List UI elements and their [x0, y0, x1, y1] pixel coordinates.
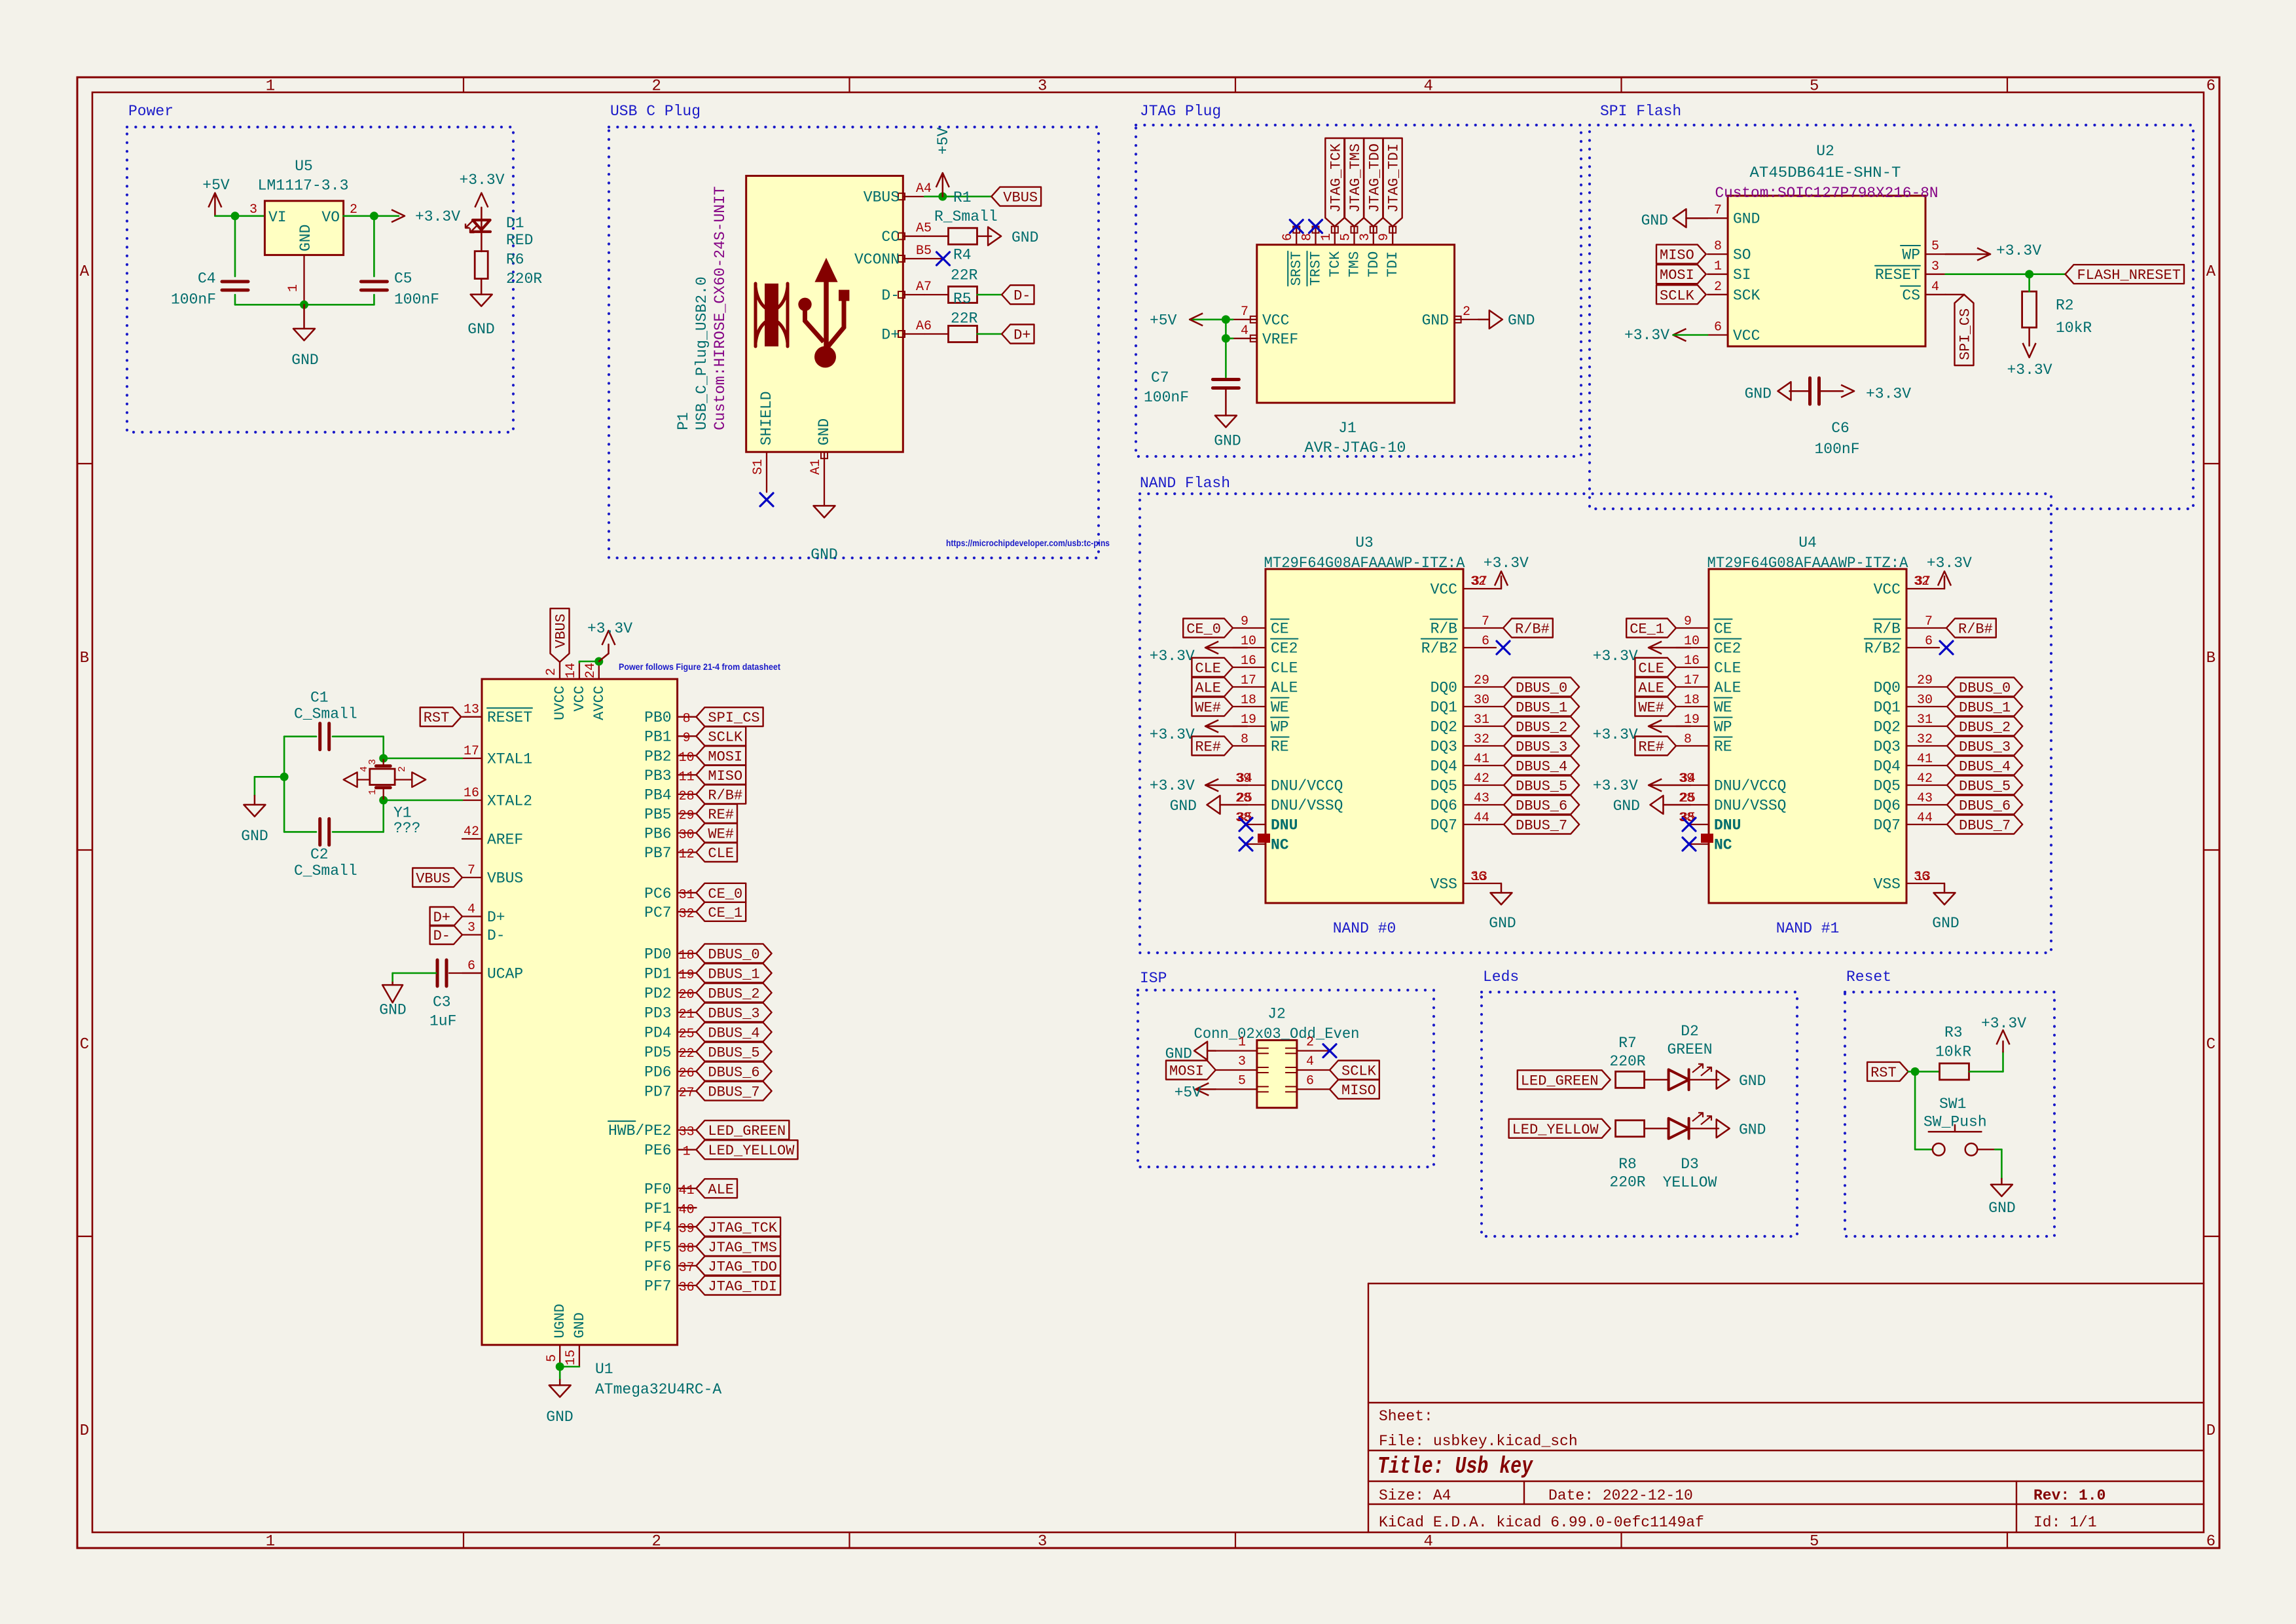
svg-text:42: 42 — [1474, 771, 1489, 786]
J2 pin 6 — [1286, 1073, 1330, 1092]
svg-text:SCLK: SCLK — [1341, 1063, 1377, 1080]
svg-text:3: 3 — [467, 921, 475, 936]
R7 reference — [1618, 1035, 1637, 1052]
svg-text:DBUS_3: DBUS_3 — [1516, 739, 1567, 756]
svg-text:A: A — [80, 263, 90, 281]
svg-text:D1: D1 — [506, 215, 524, 232]
svg-text:2: 2 — [651, 78, 661, 96]
U4 value MT29F64G08AFAAAWP-ITZ:A — [1707, 555, 1908, 572]
svg-text:25: 25 — [1237, 791, 1252, 806]
capacitor C4 — [222, 216, 248, 305]
svg-text:PD2: PD2 — [644, 986, 671, 1003]
U4 pin 17 ALE — [1676, 673, 1741, 697]
global label RE# mcu — [696, 804, 737, 823]
svg-text:DQ3: DQ3 — [1874, 739, 1901, 756]
svg-text:MISO: MISO — [708, 768, 742, 784]
svg-text:R2: R2 — [2056, 297, 2074, 314]
U3 pin DNU — [1235, 811, 1298, 834]
svg-text:GND: GND — [467, 321, 494, 338]
P1 pin B5 VCONN — [854, 244, 932, 268]
svg-text:10: 10 — [1684, 634, 1700, 649]
svg-text:GND: GND — [241, 828, 268, 845]
svg-text:ALE: ALE — [708, 1181, 734, 1198]
J1 pin 4 VREF — [1233, 323, 1298, 348]
global label DBUS U4 DQ7 — [1947, 815, 2022, 834]
power symbol +3.3V U4 — [1938, 571, 1951, 585]
frame column tick — [1620, 77, 1622, 1548]
svg-text:Leds: Leds — [1483, 969, 1519, 986]
svg-text:VCONN: VCONN — [854, 251, 900, 268]
svg-text:42: 42 — [464, 824, 479, 840]
svg-text:DBUS_0: DBUS_0 — [1959, 680, 2011, 697]
P1 pin S1 SHIELD — [751, 391, 775, 492]
U2 pin 5 WP — [1901, 239, 1946, 264]
wire crystal left rail — [283, 737, 285, 832]
U3 pin 42 DQ5 — [1430, 771, 1504, 795]
C6 value 100nF — [1814, 441, 1859, 458]
global label MISO u2 — [1656, 245, 1706, 264]
J1 pin 7 VCC — [1233, 304, 1289, 329]
R6 reference — [506, 251, 524, 268]
svg-text:R5: R5 — [953, 291, 972, 308]
svg-text:DBUS_4: DBUS_4 — [1959, 759, 2011, 775]
power symbol +5V jtag — [1150, 312, 1203, 329]
global label CE_1 mcu — [696, 902, 746, 921]
svg-text:31: 31 — [679, 887, 695, 902]
svg-text:PD5: PD5 — [644, 1044, 671, 1061]
global label LED_GREEN — [1518, 1070, 1611, 1089]
U3 pin 31 DQ2 — [1430, 712, 1504, 736]
J2 pin 5 — [1216, 1073, 1268, 1092]
wire +5V to U5 VI — [215, 215, 264, 217]
note NAND #0 — [1333, 920, 1396, 937]
U3 pin NC — [1247, 837, 1289, 854]
svg-text:SO: SO — [1733, 247, 1751, 264]
frame row tick — [77, 849, 2219, 851]
svg-text:RE#: RE# — [708, 807, 734, 823]
svg-text:DBUS_1: DBUS_1 — [1516, 700, 1567, 716]
P1 pin A1 GND — [809, 418, 833, 506]
R8 value 220R — [1609, 1174, 1645, 1191]
junction VBUS — [938, 193, 947, 201]
power symbol +3.3V above D1 — [459, 172, 504, 220]
global label JTAG_TMS — [1345, 138, 1364, 227]
junction FLASH_NRESET — [2025, 270, 2033, 278]
svg-text:43: 43 — [1917, 791, 1933, 806]
svg-text:+3.3V: +3.3V — [2007, 361, 2052, 378]
U2 pin 3 RESET — [1875, 259, 1946, 284]
svg-text:DBUS_1: DBUS_1 — [708, 966, 759, 982]
resistor R5 on D+ line — [924, 326, 977, 342]
svg-text:6: 6 — [2206, 1533, 2215, 1551]
svg-text:R3: R3 — [1944, 1024, 1963, 1041]
svg-text:P1: P1 — [675, 412, 692, 430]
C4 reference — [198, 270, 216, 287]
svg-text:4: 4 — [467, 902, 475, 917]
global label DBUS U4 DQ5 — [1947, 776, 2022, 795]
global label DBUS U3 DQ6 — [1504, 796, 1579, 815]
svg-text:DBUS_4: DBUS_4 — [1516, 759, 1567, 775]
U1 pin 38 PF5 — [644, 1239, 696, 1257]
U3 pin 18 WE — [1233, 693, 1289, 716]
global label DBUS U4 DQ0 — [1947, 678, 2022, 697]
svg-text:4: 4 — [1423, 1533, 1432, 1551]
global label LED_GREEN mcu — [696, 1120, 789, 1139]
svg-text:J2: J2 — [1267, 1006, 1286, 1023]
svg-text:30: 30 — [1474, 693, 1489, 708]
svg-text:5: 5 — [1810, 1533, 1819, 1551]
svg-text:17: 17 — [1684, 673, 1700, 688]
global label RE# U4 — [1635, 737, 1676, 756]
label +3.3V U3 vcc — [1484, 555, 1529, 572]
svg-text:+3.3V: +3.3V — [1996, 242, 2041, 259]
svg-text:PB7: PB7 — [644, 845, 671, 862]
title block date field — [1548, 1487, 1693, 1504]
svg-text:9: 9 — [1377, 233, 1392, 241]
svg-text:UVCC: UVCC — [552, 686, 568, 720]
svg-text:PB2: PB2 — [644, 748, 671, 765]
U1 pin 18 PD0 — [644, 946, 696, 963]
ground arrow U3 vssq — [1170, 796, 1247, 815]
ground symbol below R6 — [467, 279, 494, 338]
svg-text:CLE: CLE — [708, 845, 734, 862]
wire XTAL1 — [384, 758, 462, 760]
svg-text:100nF: 100nF — [1814, 441, 1859, 458]
svg-text:DBUS_6: DBUS_6 — [1959, 798, 2011, 815]
resistor R8 — [1616, 1120, 1645, 1137]
U5 reference — [295, 158, 313, 175]
svg-text:DBUS_2: DBUS_2 — [1959, 720, 2011, 736]
U3 pin 6 R/B2 — [1421, 634, 1489, 657]
svg-text:TRST: TRST — [1307, 251, 1324, 286]
USB icon — [756, 259, 849, 368]
U3 pin 8 RE — [1233, 732, 1289, 756]
svg-text:D3: D3 — [1681, 1156, 1699, 1173]
svg-text:D+: D+ — [881, 327, 900, 344]
svg-text:C6: C6 — [1831, 420, 1850, 437]
capacitor C2 — [284, 800, 384, 845]
J2 pin 2 — [1286, 1035, 1330, 1054]
svg-text:PD3: PD3 — [644, 1005, 671, 1022]
global label CLE U4 — [1635, 658, 1676, 677]
svg-text:12: 12 — [679, 847, 695, 862]
svg-text:WP: WP — [1902, 247, 1920, 264]
svg-text:+3.3V: +3.3V — [1981, 1015, 2026, 1032]
global label DBUS U4 DQ4 — [1947, 756, 2022, 775]
global label R/B# U3 — [1482, 619, 1553, 638]
U2 pin 7 GND — [1707, 203, 1760, 228]
svg-text:6: 6 — [1714, 320, 1722, 335]
svg-text:RE: RE — [1271, 739, 1289, 756]
C5 value 100nF — [394, 291, 439, 308]
U1 pin 27 PD7 — [644, 1084, 696, 1101]
svg-text:U2: U2 — [1816, 143, 1834, 160]
svg-text:3: 3 — [1931, 259, 1939, 274]
svg-text:JTAG_TDI: JTAG_TDI — [1386, 143, 1402, 213]
U4 pin 43 DQ6 — [1874, 791, 1947, 815]
C5 reference — [394, 270, 412, 287]
svg-text:CLE: CLE — [1195, 661, 1221, 677]
svg-text:PF6: PF6 — [644, 1258, 671, 1275]
J1 pin 3 TDO — [1358, 227, 1382, 278]
svg-text:39: 39 — [679, 1221, 695, 1236]
svg-text:https://microchipdeveloper.com: https://microchipdeveloper.com/usb:tc-pi… — [946, 538, 1110, 548]
svg-text:+3.3V: +3.3V — [587, 620, 632, 637]
U1 pin 36 PF7 — [644, 1278, 696, 1296]
svg-text:DBUS_3: DBUS_3 — [1959, 739, 2011, 756]
U5 pin 3 VI — [249, 202, 287, 226]
svg-text:NC: NC — [1714, 837, 1732, 854]
title block tool field — [1379, 1514, 1704, 1531]
svg-text:20: 20 — [679, 987, 695, 1003]
U3 pin DNU/VSSQ — [1235, 791, 1343, 815]
svg-text:SPI_CS: SPI_CS — [1957, 308, 1973, 360]
svg-text:Date: 2022-12-10: Date: 2022-12-10 — [1548, 1487, 1693, 1504]
section label Leds — [1483, 969, 1519, 986]
svg-text:6: 6 — [1925, 634, 1933, 649]
svg-text:2: 2 — [651, 1533, 661, 1551]
ground symbol below C7 — [1214, 416, 1241, 450]
svg-text:1: 1 — [266, 1533, 275, 1551]
svg-text:6: 6 — [467, 959, 475, 974]
svg-text:+3.3V: +3.3V — [1484, 555, 1529, 572]
svg-text:220R: 220R — [1609, 1174, 1645, 1191]
ground symbol U4 vss — [1932, 893, 1959, 932]
svg-text:Reset: Reset — [1846, 969, 1891, 986]
frame column tick — [1235, 77, 1236, 1548]
svg-text:WE: WE — [1714, 699, 1732, 716]
U1 pin 30 PB6 — [644, 825, 696, 843]
svg-text:R7: R7 — [1618, 1035, 1637, 1052]
svg-text:R/B2: R/B2 — [1421, 640, 1457, 657]
svg-text:KiCad E.D.A. kicad 6.99.0-0ef: KiCad E.D.A. kicad 6.99.0-0efc1149af — [1379, 1514, 1704, 1531]
svg-text:DNU/VCCQ: DNU/VCCQ — [1271, 778, 1343, 795]
svg-text:TCK: TCK — [1327, 251, 1343, 277]
ground arrow D2 — [1717, 1071, 1766, 1090]
svg-text:LED_YELLOW: LED_YELLOW — [1512, 1122, 1599, 1138]
resistor R6 — [475, 251, 488, 279]
U4 pin VCC — [1874, 574, 1944, 599]
svg-text:CLE: CLE — [1638, 661, 1664, 677]
ground arrow U4 vssq — [1613, 796, 1690, 815]
svg-text:GND: GND — [1422, 312, 1449, 329]
svg-text:JTAG_TCK: JTAG_TCK — [708, 1220, 777, 1236]
J1 pin 9 TDI — [1377, 227, 1401, 278]
svg-text:DNU: DNU — [1271, 817, 1298, 834]
svg-text:C4: C4 — [198, 270, 216, 287]
global label DBUS U4 DQ2 — [1947, 717, 2022, 736]
U4 pin 7 R/B — [1874, 614, 1933, 638]
C6 reference — [1831, 420, 1850, 437]
svg-text:CLE: CLE — [1271, 660, 1298, 677]
svg-text:GND: GND — [546, 1409, 573, 1426]
wire D2 to gnd — [1689, 1079, 1719, 1080]
U4 pin DNU/VCCQ — [1679, 771, 1786, 795]
svg-text:1: 1 — [1714, 259, 1722, 274]
svg-text:C: C — [80, 1036, 89, 1054]
svg-text:VBUS: VBUS — [416, 871, 450, 887]
svg-text:43: 43 — [1474, 791, 1489, 806]
title block frame — [1368, 1283, 2204, 1532]
global label DBUS U3 DQ7 — [1504, 815, 1579, 834]
U1 pin 2 UVCC — [544, 662, 568, 720]
U1 pin 31 PC6 — [644, 885, 696, 903]
svg-text:MISO: MISO — [1660, 248, 1694, 264]
svg-text:22R: 22R — [951, 267, 978, 284]
wire to crystal gnd — [255, 777, 284, 796]
svg-text:32: 32 — [1474, 732, 1489, 747]
svg-text:SW_Push: SW_Push — [1923, 1114, 1987, 1131]
svg-text:36: 36 — [679, 1280, 695, 1295]
svg-text:LED_GREEN: LED_GREEN — [708, 1123, 786, 1139]
SW1 value SW_Push — [1923, 1114, 1987, 1131]
section label JTAG Plug — [1140, 103, 1221, 120]
U3 pin VSS — [1430, 870, 1501, 893]
U1 pin 24 AVCC — [583, 662, 608, 720]
no connect U4 nc — [1683, 838, 1696, 851]
U1 pin 39 PF4 — [644, 1219, 696, 1237]
svg-text:VBUS: VBUS — [487, 870, 523, 887]
U1 value ATmega32U4RC-A — [595, 1381, 721, 1398]
svg-text:9: 9 — [1684, 614, 1692, 629]
ground arrow D3 — [1717, 1119, 1766, 1138]
global label SCLK u2 — [1656, 285, 1706, 304]
R7 value 220R — [1609, 1053, 1645, 1070]
svg-text:MISO: MISO — [1341, 1082, 1376, 1099]
svg-text:D+: D+ — [487, 909, 505, 926]
svg-text:MOSI: MOSI — [1660, 267, 1694, 284]
svg-text:220R: 220R — [1609, 1053, 1645, 1070]
svg-text:13: 13 — [464, 703, 479, 718]
global label VBUS mcu — [412, 868, 462, 887]
global label R/B# U4 — [1925, 619, 1996, 638]
power symbol +3.3V U3 ce2 — [1150, 642, 1247, 665]
svg-text:VBUS: VBUS — [864, 189, 900, 206]
svg-text:DQ4: DQ4 — [1874, 758, 1901, 775]
svg-text:+3.3V: +3.3V — [1150, 777, 1195, 794]
section label Power — [128, 103, 173, 120]
U3 pin 32 DQ3 — [1430, 732, 1504, 756]
frame row label C — [80, 1036, 2215, 1054]
U4 pin 8 RE — [1676, 732, 1732, 756]
global label RST reset — [1867, 1062, 1908, 1081]
svg-text:AT45DB641E-SHN-T: AT45DB641E-SHN-T — [1750, 164, 1901, 181]
D1 value RED — [506, 232, 533, 249]
section label SPI Flash — [1600, 103, 1681, 120]
U1 pin 25 PD4 — [644, 1025, 696, 1043]
svg-text:VBUS: VBUS — [553, 614, 570, 648]
svg-text:DBUS_3: DBUS_3 — [708, 1006, 759, 1022]
U3 pin VCC — [1430, 574, 1501, 599]
svg-text:A1: A1 — [809, 459, 824, 475]
svg-text:USB_C_Plug_USB2.0: USB_C_Plug_USB2.0 — [693, 276, 710, 430]
svg-text:5: 5 — [1339, 233, 1354, 241]
svg-text:AVR-JTAG-10: AVR-JTAG-10 — [1305, 439, 1406, 456]
svg-text:Sheet:: Sheet: — [1379, 1408, 1433, 1425]
svg-text:D2: D2 — [1681, 1023, 1699, 1040]
svg-text:+3.3V: +3.3V — [1624, 327, 1669, 344]
section label ISP — [1140, 970, 1167, 987]
note power follows — [619, 661, 780, 672]
svg-text:3: 3 — [1238, 1054, 1246, 1069]
U1 pin 5 UGND — [545, 1304, 568, 1367]
svg-text:30: 30 — [679, 828, 695, 843]
svg-text:10kR: 10kR — [1935, 1043, 1971, 1060]
svg-text:Y1: Y1 — [393, 805, 412, 822]
ground arrow U2 GND — [1641, 209, 1708, 229]
power symbol +3.3V U3 wp — [1150, 720, 1247, 744]
U1 pin 21 PD3 — [644, 1005, 696, 1023]
global label JTAG_TCK — [1325, 138, 1344, 227]
svg-text:33: 33 — [679, 1125, 695, 1140]
svg-text:18: 18 — [1241, 693, 1256, 708]
svg-text:RST: RST — [1870, 1065, 1897, 1081]
no connect U4 dnu — [1683, 818, 1696, 831]
svg-text:TDI: TDI — [1385, 251, 1401, 278]
svg-text:7: 7 — [467, 863, 475, 878]
global label DBUS_1 mcu — [696, 963, 771, 982]
svg-text:+3.3V: +3.3V — [1150, 726, 1195, 743]
svg-text:19: 19 — [1684, 712, 1700, 728]
svg-text:TDO: TDO — [1366, 251, 1382, 278]
svg-text:13: 13 — [1472, 870, 1487, 885]
no connect U3 dnu — [1239, 818, 1252, 831]
svg-text:DBUS_0: DBUS_0 — [708, 946, 759, 963]
junction XTAL1 — [379, 754, 388, 763]
U3 pin 7 R/B — [1430, 614, 1489, 638]
section label NAND Flash — [1140, 475, 1230, 492]
svg-text:29: 29 — [1917, 673, 1933, 688]
svg-text:1: 1 — [266, 78, 275, 96]
global label ALE U3 — [1192, 678, 1233, 697]
U3 pin 30 DQ1 — [1430, 693, 1504, 716]
svg-text:U1: U1 — [595, 1361, 613, 1378]
svg-text:D+: D+ — [433, 910, 450, 926]
svg-text:13: 13 — [1915, 870, 1931, 885]
svg-text:14: 14 — [564, 663, 579, 678]
frame column label 4 — [1423, 78, 1432, 1551]
svg-text:GND: GND — [297, 225, 314, 251]
capacitor C7 — [1212, 380, 1239, 416]
P1 pin A7 D- — [881, 280, 932, 304]
svg-text:PD6: PD6 — [644, 1064, 671, 1081]
svg-text:CE_0: CE_0 — [708, 886, 742, 902]
global label SCLK j2 — [1330, 1061, 1379, 1080]
J2 pin 1 — [1216, 1035, 1268, 1054]
svg-text:2: 2 — [1463, 304, 1470, 320]
power symbol +3.3V U4 ce2 — [1593, 642, 1690, 665]
power symbol +5V above VBUS — [935, 127, 952, 196]
R6 value 220R — [506, 270, 542, 287]
power symbol +3.3V below R2 — [2007, 327, 2052, 378]
title block file field — [1379, 1433, 1578, 1450]
svg-text:A5: A5 — [916, 221, 932, 236]
svg-text:C: C — [2206, 1036, 2215, 1054]
U1 pin 12 PB7 — [644, 845, 696, 862]
U3 pin DNU/VCCQ — [1235, 771, 1343, 795]
svg-text:+5V: +5V — [935, 127, 952, 155]
U3 pin 17 ALE — [1233, 673, 1298, 697]
U5 pin 1 GND — [303, 255, 304, 304]
svg-text:GND: GND — [1932, 915, 1959, 932]
svg-text:RESET: RESET — [1875, 267, 1920, 284]
svg-text:JTAG Plug: JTAG Plug — [1140, 103, 1221, 120]
U4 pin 9 CE — [1676, 614, 1732, 638]
svg-text:6: 6 — [1482, 634, 1489, 649]
svg-text:DBUS_5: DBUS_5 — [1959, 779, 2011, 795]
global label DBUS U3 DQ0 — [1504, 678, 1579, 697]
U1 pin 29 PB5 — [644, 806, 696, 824]
